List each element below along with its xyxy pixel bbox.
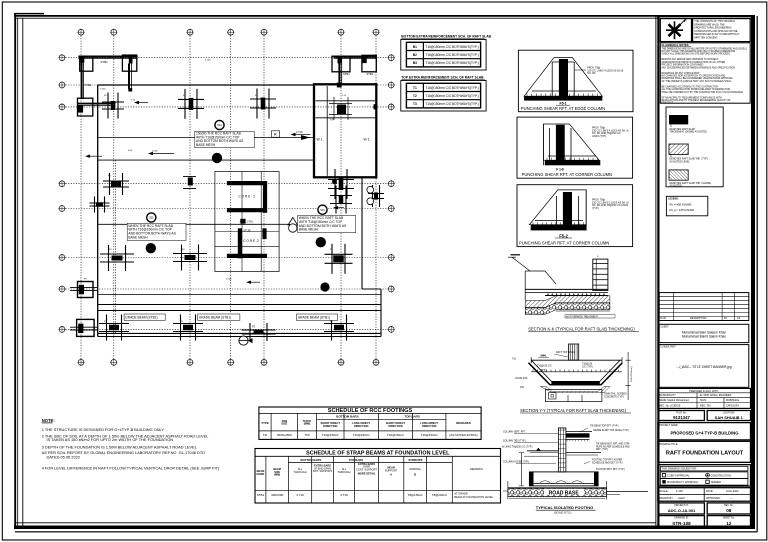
svg-text:(MM): (MM) bbox=[274, 473, 280, 477]
legend box bbox=[666, 107, 723, 188]
svg-text:DRAWINGS SHALL BE CONSIDERED U: DRAWINGS SHALL BE CONSIDERED UNLESS PRIO… bbox=[662, 77, 734, 80]
svg-text:TOP BARS: TOP BARS bbox=[404, 415, 419, 419]
svg-text:B1: B1 bbox=[413, 45, 417, 49]
svg-text:REMARKS: REMARKS bbox=[470, 467, 483, 471]
strap beam to raft bbox=[77, 104, 116, 106]
note flag G2 bbox=[147, 213, 156, 222]
svg-text:1.50m: 1.50m bbox=[100, 89, 106, 91]
svg-text:T8@150c/c: T8@150c/c bbox=[408, 493, 424, 497]
svg-text:DRAWN BY:: DRAWN BY: bbox=[660, 497, 674, 500]
svg-text:4500x4500: 4500x4500 bbox=[277, 433, 292, 437]
svg-text:STB1: STB1 bbox=[367, 72, 374, 76]
svg-text:MIN.: MIN. bbox=[540, 354, 546, 358]
svg-text:REV. No:: REV. No: bbox=[724, 505, 734, 507]
svg-text:SIGN:: SIGN: bbox=[700, 399, 707, 402]
svg-text:Pu = 450 K/N/M2: Pu = 450 K/N/M2 bbox=[670, 202, 692, 206]
svg-text:SHALL BE CARRIED OUT BY THE CO: SHALL BE CARRIED OUT BY THE CONTRACTOR F… bbox=[662, 91, 744, 94]
svg-text:12: 12 bbox=[726, 521, 732, 526]
svg-text:PUNCHING SHEAR RFT. AT CORNER: PUNCHING SHEAR RFT. AT CORNER COLUMN bbox=[522, 172, 612, 177]
svg-text:SCHEDULE AND DET. (TYP.): SCHEDULE AND DET. (TYP.) bbox=[592, 461, 623, 464]
svg-text:T16@150mm C/C BOTHWAYS(TYP.): T16@150mm C/C BOTHWAYS(TYP.) bbox=[425, 86, 478, 90]
svg-text:DIRECTION: DIRECTION bbox=[388, 424, 402, 428]
svg-text:W 1: W 1 bbox=[317, 138, 323, 142]
svg-text:NAME: Majdub Mohammad: NAME: Majdub Mohammad bbox=[659, 399, 689, 402]
svg-text:THIS DRAWING ISSUED FOR:: THIS DRAWING ISSUED FOR: bbox=[662, 468, 697, 471]
svg-text:DIRECTION: DIRECTION bbox=[354, 424, 368, 428]
svg-text:T16@150c/c: T16@150c/c bbox=[353, 433, 371, 437]
svg-text:DIRECTION: DIRECTION bbox=[323, 424, 337, 428]
footing box top-left B bbox=[122, 55, 136, 71]
svg-text:DRAWINGS OF ANY CONSULTANT: DRAWINGS OF ANY CONSULTANT bbox=[662, 72, 701, 75]
svg-text:CONSULTANT:: CONSULTANT: bbox=[660, 346, 676, 349]
svg-text:ANY DISCREPANCIES BETWEEN DRAW: ANY DISCREPANCIES BETWEEN DRAWINGS AND S… bbox=[662, 66, 736, 69]
svg-text:(MM): (MM) bbox=[304, 422, 311, 426]
svg-text:---: --- bbox=[730, 497, 733, 500]
svg-text:4) LINKS T8@150 C/C (TYP.): 4) LINKS T8@150 C/C (TYP.) bbox=[502, 447, 533, 449]
svg-text:STR-108: STR-108 bbox=[672, 521, 691, 526]
svg-text:STB1: STB1 bbox=[343, 72, 350, 76]
svg-text:REG. No: LICENSE: REG. No: LICENSE bbox=[659, 405, 681, 408]
svg-text:T16@150c/c: T16@150c/c bbox=[387, 433, 405, 437]
note box G3 bbox=[298, 216, 356, 233]
svg-text:OF MUNICIPALITY REQUIREMENT CO: OF MUNICIPALITY REQUIREMENT COMPLIANCE W… bbox=[662, 96, 723, 99]
svg-text:A: A bbox=[390, 473, 392, 477]
svg-text:GOOD SOIL: GOOD SOIL bbox=[515, 378, 529, 380]
svg-text:T16@150mm C/C BOTHWAYS(TYP.): T16@150mm C/C BOTHWAYS(TYP.) bbox=[425, 61, 478, 65]
core-1 walls bbox=[227, 181, 267, 213]
svg-text:OF THE OWNER IS CONSULTANT. AN: OF THE OWNER IS CONSULTANT. ANY SUCH CHA… bbox=[662, 80, 733, 83]
footing box top-left A bbox=[80, 57, 93, 71]
grid bubbles left bbox=[58, 54, 65, 333]
copyright text box bbox=[693, 19, 751, 42]
svg-text:T16@150mm C/C BOTHWAYS(TYP.): T16@150mm C/C BOTHWAYS(TYP.) bbox=[425, 94, 478, 98]
misc arrows bbox=[85, 155, 102, 158]
svg-text:NO. RF.: NO. RF. bbox=[587, 72, 596, 75]
svg-text:GRADE BEAM (STB1): GRADE BEAM (STB1) bbox=[199, 315, 231, 319]
bottom extra reinforcement table bbox=[401, 35, 492, 70]
left outside footing y289 bbox=[70, 279, 98, 298]
note flag G1 bbox=[215, 120, 224, 129]
core outline box bbox=[215, 172, 279, 272]
footings row y104 bbox=[102, 93, 124, 119]
svg-text:PROJECT ID:: PROJECT ID: bbox=[674, 505, 689, 507]
svg-text:RAFT TOP LEVEL: RAFT TOP LEVEL bbox=[556, 351, 576, 354]
svg-text:NO CHANGES NOR ALTERATION TO S: NO CHANGES NOR ALTERATION TO SPECIFICATI… bbox=[662, 75, 726, 78]
svg-text:DRAWING TITLE:: DRAWING TITLE: bbox=[660, 443, 679, 446]
notes block bbox=[42, 418, 220, 471]
title block frame bbox=[657, 15, 755, 529]
black dots bbox=[212, 153, 222, 163]
svg-text:Pu,g = 125 K/N/M2: Pu,g = 125 K/N/M2 bbox=[670, 208, 695, 212]
note box G1 bbox=[195, 131, 254, 147]
svg-text:B: B bbox=[414, 473, 416, 477]
consultant box bbox=[659, 345, 749, 388]
sheet number row bbox=[659, 516, 751, 527]
drawing title box bbox=[658, 441, 751, 462]
plot no row bbox=[659, 411, 751, 421]
svg-text:T16@150c/c: T16@150c/c bbox=[322, 433, 340, 437]
svg-text:REGULATIONS AND TO THE BEST EN: REGULATIONS AND TO THE BEST ENGINEERING … bbox=[662, 99, 732, 102]
top-right strap wall bbox=[334, 57, 377, 59]
grid horizontal lines bbox=[66, 58, 389, 330]
wall vertical left x82 bbox=[82, 60, 92, 99]
svg-text:GRADE SLAB? TOP LEVEL (TYP.): GRADE SLAB? TOP LEVEL (TYP.) bbox=[593, 429, 629, 432]
svg-text:BE CHARGED ACCORDING TO THE CO: BE CHARGED ACCORDING TO THE CONTRACTOR bbox=[662, 85, 719, 88]
dim line y294 bbox=[98, 294, 381, 296]
svg-text:Muhammad Bakht Salem Khan: Muhammad Bakht Salem Khan bbox=[682, 335, 726, 339]
svg-text:TOP BARS: TOP BARS bbox=[349, 458, 363, 462]
svg-text:ADMINISTRATOR PRIOR IN CONDUCT: ADMINISTRATOR PRIOR IN CONDUCTION OF ALL… bbox=[662, 61, 726, 64]
bottom band lines bbox=[98, 305, 381, 311]
svg-text:DIRECTION: DIRECTION bbox=[422, 424, 436, 428]
svg-text:DET. (TYP.): DET. (TYP.) bbox=[596, 449, 608, 451]
svg-text:PUNCHING SHEAR RFT. AT CORNER: PUNCHING SHEAR RFT. AT CORNER COLUMN bbox=[519, 241, 609, 246]
svg-text:SIZE: SIZE bbox=[281, 422, 287, 426]
svg-text:PROJECT NAME:: PROJECT NAME: bbox=[660, 424, 679, 427]
svg-text:4 T16: 4 T16 bbox=[340, 493, 348, 497]
svg-text:PUNCHING SHEAR RFT. AT EDGE CO: PUNCHING SHEAR RFT. AT EDGE COLUMN bbox=[521, 106, 605, 111]
svg-text:1:100: 1:100 bbox=[676, 489, 683, 493]
svg-text:STUB: STUB bbox=[243, 229, 250, 233]
svg-text:SHEET No:: SHEET No: bbox=[723, 518, 735, 520]
svg-text:SAH SHUAIB 1: SAH SHUAIB 1 bbox=[715, 415, 744, 420]
municipal approval rows bbox=[658, 388, 751, 408]
svg-text:TIE BEAM BOT. RFT. AND STIR-: TIE BEAM BOT. RFT. AND STIR- bbox=[596, 443, 630, 446]
svg-text:GRADE BEAM (STB1): GRADE BEAM (STB1) bbox=[125, 315, 157, 319]
footing near 341,200 bbox=[330, 186, 352, 214]
svg-text:AS NOTED: AS NOTED bbox=[670, 185, 682, 188]
shear wall W1 box bbox=[314, 83, 376, 184]
svg-text:T16@150mm C/C BOTHWAYS(TYP.): T16@150mm C/C BOTHWAYS(TYP.) bbox=[425, 102, 478, 106]
svg-text:DATE:: DATE: bbox=[706, 490, 713, 493]
svg-text:ADC-O-JA-001: ADC-O-JA-001 bbox=[668, 508, 696, 513]
footings row y330 bbox=[99, 315, 129, 341]
svg-text:REG. TIN:: REG. TIN: bbox=[700, 405, 711, 408]
svg-text:TYP: TYP bbox=[330, 119, 335, 122]
svg-text:AUG 2022: AUG 2022 bbox=[726, 489, 739, 493]
svg-text:PROJECT INFORMATION CONTAINED: PROJECT INFORMATION CONTAINED bbox=[662, 64, 704, 67]
svg-text:REMARKS: REMARKS bbox=[456, 421, 471, 425]
svg-text:F 1-8: F 1-8 bbox=[556, 167, 564, 171]
svg-text:THICKENING (DOWN) AS NOTED: THICKENING (DOWN) AS NOTED bbox=[670, 131, 708, 134]
svg-text:CLIENT:: CLIENT: bbox=[660, 326, 669, 328]
svg-text:C O R E - 1: C O R E - 1 bbox=[238, 195, 255, 199]
svg-text:S01: S01 bbox=[217, 123, 222, 127]
svg-text:THE DIMENSIONS ARE IN MILLIMET: THE DIMENSIONS ARE IN MILLIMETER OR NOTE… bbox=[662, 47, 748, 50]
issued-for box with checkboxes bbox=[658, 465, 751, 487]
svg-text:1 THE STRUCTURE IS DESIGNED F: 1 THE STRUCTURE IS DESIGNED FOR G+4TYP-B… bbox=[42, 427, 165, 432]
svg-text:2-T16: 2-T16 bbox=[240, 222, 246, 224]
svg-text:-.-( )ADC-..TITLE SHEET BANNER: -.-( )ADC-..TITLE SHEET BANNER.jpg bbox=[676, 365, 731, 369]
svg-text:ROAD BASE: ROAD BASE bbox=[549, 490, 580, 496]
top extra reinforcement table bbox=[401, 76, 486, 111]
svg-text:T16@150 C/C: T16@150 C/C bbox=[537, 366, 552, 368]
diamond flag bottom bbox=[239, 336, 253, 345]
svg-text:(TYP.): (TYP.) bbox=[592, 207, 599, 210]
core-2 walls bbox=[227, 219, 267, 258]
section Y-Y drawing bbox=[512, 344, 633, 413]
grid bubbles top bbox=[77, 29, 379, 36]
svg-text:T1: T1 bbox=[413, 86, 417, 90]
svg-text:MORE DETAIL: MORE DETAIL bbox=[358, 472, 376, 476]
svg-text:T8@200c/c: T8@200c/c bbox=[432, 493, 448, 497]
svg-text:ALL THE CONSTRUCTION WORKS REL: ALL THE CONSTRUCTION WORKS RELATED TO RE… bbox=[662, 88, 731, 91]
svg-text:CONSTRUCTION: CONSTRUCTION bbox=[711, 475, 731, 478]
svg-text:BOTTOM BARS: BOTTOM BARS bbox=[336, 415, 358, 419]
svg-text:SCALE:: SCALE: bbox=[660, 490, 669, 493]
section line K-K y137.5 bbox=[98, 131, 313, 140]
punching shear detail box 3 (corner column mirrored) bbox=[517, 185, 633, 247]
svg-text:T16@150c/c: T16@150c/c bbox=[421, 433, 439, 437]
svg-text:PREPARED IN ASS. WITH:: PREPARED IN ASS. WITH: bbox=[689, 390, 719, 393]
svg-text:T16@150mm C/C BOTHWAYS(TYP.): T16@150mm C/C BOTHWAYS(TYP.) bbox=[425, 53, 478, 57]
svg-text:IS TAKEN AS 150 kN/m2 FOR UPTO: IS TAKEN AS 150 kN/m2 FOR UPTO 2m WIDTH … bbox=[47, 437, 174, 442]
svg-text:STB1: STB1 bbox=[257, 493, 265, 497]
svg-text:THROUGH: THROUGH bbox=[337, 470, 350, 474]
svg-text:BASE MESH: BASE MESH bbox=[128, 236, 148, 240]
raft interior line y160 bbox=[98, 159, 314, 161]
svg-text:TOP EXTRA REINFORCEMENT SCH. O: TOP EXTRA REINFORCEMENT SCH. OF RAFT SLA… bbox=[401, 76, 484, 80]
svg-text:TIE BEAM TOP RFT. (TYP.): TIE BEAM TOP RFT. (TYP.) bbox=[590, 425, 619, 428]
footing box left C bbox=[78, 98, 93, 116]
svg-text:F5-2: F5-2 bbox=[559, 233, 568, 238]
punching shear detail box 1 (edge column) bbox=[518, 50, 633, 111]
footings row y184 bbox=[103, 173, 129, 195]
svg-text:C/C (TYP.): C/C (TYP.) bbox=[582, 366, 593, 368]
Pu legend box bbox=[666, 196, 707, 216]
svg-text:C O R E -2: C O R E -2 bbox=[243, 239, 259, 243]
svg-text:4 FOR LEVEL DIFFERENCE IN RAF: 4 FOR LEVEL DIFFERENCE IN RAFT FOLLOW TY… bbox=[42, 466, 220, 471]
svg-text:(SCALE N.T.S.): (SCALE N.T.S.) bbox=[554, 512, 572, 515]
revision table bbox=[659, 293, 749, 321]
schedule of strap beams table bbox=[255, 449, 501, 504]
footing row y208 left bbox=[90, 197, 110, 213]
section K-K drawing bbox=[508, 255, 639, 332]
svg-text:REPORT ANY ERROR AND OMISSION: REPORT ANY ERROR AND OMISSION TO PROJECT bbox=[662, 58, 720, 61]
arrow annotation left of W1 bbox=[291, 131, 311, 136]
svg-text:T16@150mm C/C BOTHWAYS(TYP.): T16@150mm C/C BOTHWAYS(TYP.) bbox=[425, 45, 478, 49]
svg-text:LEGEND:: LEGEND: bbox=[668, 199, 679, 201]
punching shear detail box 2 (corner column) bbox=[517, 117, 633, 178]
footing box top-right A bbox=[332, 56, 350, 76]
svg-text:CK: CK bbox=[737, 317, 741, 320]
svg-text:75MM THK. SCREED: 75MM THK. SCREED bbox=[604, 394, 627, 396]
tiny dimension labels bbox=[100, 60, 347, 281]
svg-text:DESCRIPTION: DESCRIPTION bbox=[690, 317, 707, 320]
svg-text:LINKS (TYP.): LINKS (TYP.) bbox=[592, 135, 606, 138]
svg-text:AS NOTED LEVEL: AS NOTED LEVEL bbox=[670, 160, 691, 163]
svg-text:TYPICAL ISOLATED FOOTING: TYPICAL ISOLATED FOOTING bbox=[536, 505, 593, 510]
wall vertical from B down bbox=[128, 64, 132, 92]
svg-text:DRAWING ID:: DRAWING ID: bbox=[674, 517, 689, 520]
svg-text:3.70m: 3.70m bbox=[205, 60, 211, 62]
svg-text:WRITTEN CONSENT.: WRITTEN CONSENT. bbox=[694, 37, 718, 40]
svg-text:BASE MESH: BASE MESH bbox=[196, 143, 216, 147]
svg-text:CHECK ALL DIMENSIONS ON SITE B: CHECK ALL DIMENSIONS ON SITE BEFORE WORK… bbox=[662, 53, 731, 56]
svg-text:PRACTICE: PRACTICE bbox=[662, 102, 674, 105]
grid vertical lines bbox=[81, 36, 376, 360]
svg-text:BEAM AT FOUNDATION LEVEL: BEAM AT FOUNDATION LEVEL bbox=[454, 495, 493, 499]
logo box with compass star bbox=[660, 19, 691, 42]
svg-text:750: 750 bbox=[304, 433, 309, 437]
wall down to W1 bbox=[339, 59, 341, 84]
svg-text:STB1: STB1 bbox=[101, 60, 109, 64]
svg-text:BY: BY bbox=[724, 317, 728, 320]
svg-text:T16@150: T16@150 bbox=[582, 364, 593, 366]
svg-text:SCHEDULE OF RCC FOOTINGS: SCHEDULE OF RCC FOOTINGS bbox=[328, 408, 413, 414]
raft slab outline bbox=[98, 85, 381, 337]
raft interior vertical x115.5 bbox=[115, 160, 117, 333]
svg-text:CONT. SUPPORT: CONT. SUPPORT bbox=[356, 467, 377, 471]
footing labels F5 bbox=[104, 95, 333, 323]
svg-text:SCHEDULE OF STRAP BEAMS AT FOU: SCHEDULE OF STRAP BEAMS AT FOUNDATION LE… bbox=[306, 451, 450, 457]
svg-text:MUNICIPALITY APPROVAL: MUNICIPALITY APPROVAL bbox=[667, 481, 699, 484]
svg-text:R.NO: R.NO bbox=[660, 317, 666, 320]
footings row y258 bbox=[100, 245, 134, 271]
svg-text:T2: T2 bbox=[413, 94, 417, 98]
svg-text:NOMINAL: NOMINAL bbox=[409, 467, 421, 471]
svg-text:SECTION K-K (TYPICAL FOR RAFT: SECTION K-K (TYPICAL FOR RAFT SLAB THICK… bbox=[528, 326, 635, 331]
drawing number row bbox=[659, 503, 751, 514]
svg-text:DATED 05 05 2022: DATED 05 05 2022 bbox=[47, 454, 80, 459]
svg-text:FOOTING BOT. RFT. (TYP.): FOOTING BOT. RFT. (TYP.) bbox=[596, 469, 625, 471]
svg-text:MARK: MARK bbox=[257, 472, 265, 476]
svg-text:THROUGH: THROUGH bbox=[293, 470, 306, 474]
footing right edge y184 bbox=[368, 185, 384, 207]
svg-text:W 1: W 1 bbox=[364, 138, 370, 142]
grid bubbles bottom bbox=[77, 359, 379, 366]
svg-text:ALEX: ALEX bbox=[678, 496, 685, 500]
note flag G3 bbox=[318, 205, 327, 214]
svg-text:2-T16: 2-T16 bbox=[296, 131, 303, 134]
svg-text:NOTE:: NOTE: bbox=[42, 418, 55, 423]
client box bbox=[659, 324, 749, 342]
svg-text:B2: B2 bbox=[413, 53, 417, 57]
svg-text:(TYP.): (TYP.) bbox=[540, 370, 547, 372]
svg-text:APPROVED:: APPROVED: bbox=[706, 497, 721, 500]
grade beam label boxes bbox=[124, 314, 165, 320]
svg-text:BOT. SUPPORT: BOT. SUPPORT bbox=[313, 469, 332, 473]
grid bubbles right bbox=[388, 54, 395, 333]
left outside footing y329 bbox=[70, 319, 98, 336]
svg-text:MUNICIPALITY: MUNICIPALITY bbox=[659, 394, 676, 397]
svg-text:ANTI-TERMITE TREATMENT: ANTI-TERMITE TREATMENT bbox=[566, 316, 598, 319]
schedule of rcc footings table bbox=[259, 407, 481, 439]
svg-text:(AS NOTED EXTRA): (AS NOTED EXTRA) bbox=[449, 433, 477, 437]
footing box top-right B bbox=[362, 55, 376, 76]
svg-text:DO NOT SCALE THIS DRAWING AND: DO NOT SCALE THIS DRAWING AND ONLY FIGUR… bbox=[662, 50, 736, 53]
svg-text:STB1: STB1 bbox=[85, 83, 92, 87]
svg-text:RUPS AS PER SCHEDULE AND: RUPS AS PER SCHEDULE AND bbox=[596, 445, 630, 448]
svg-text:TYPE: TYPE bbox=[261, 421, 269, 425]
svg-text:1.50m: 1.50m bbox=[226, 279, 232, 281]
svg-text:CONCRETE (TYP.): CONCRETE (TYP.) bbox=[604, 396, 624, 398]
svg-text:BOTTOM EXTRA REINFORCEMENT SCH: BOTTOM EXTRA REINFORCEMENT SCH. OF RAFT … bbox=[401, 35, 491, 39]
long line y224.3 with level flag bbox=[98, 218, 298, 233]
svg-text:4 T16: 4 T16 bbox=[296, 493, 304, 497]
project name box bbox=[658, 423, 751, 440]
disclaimer paragraph bbox=[660, 43, 750, 105]
svg-text:BOTTOM BARS: BOTTOM BARS bbox=[301, 458, 322, 462]
svg-text:BASE MESH: BASE MESH bbox=[299, 228, 319, 232]
note box G2 bbox=[127, 223, 186, 240]
flag circles right of W1 bbox=[367, 186, 374, 204]
svg-text:Er. MOH. ENGG. ENGINEER: Er. MOH. ENGG. ENGINEER bbox=[700, 394, 732, 397]
svg-text:08: 08 bbox=[726, 508, 732, 513]
svg-text:2-T16: 2-T16 bbox=[247, 221, 254, 224]
svg-text:T3: T3 bbox=[413, 102, 417, 106]
svg-text:S01: S01 bbox=[320, 208, 325, 212]
svg-text:9131347: 9131347 bbox=[673, 415, 690, 420]
scale date rows bbox=[658, 488, 751, 502]
svg-text:MOB/Mobile: MOB/Mobile bbox=[726, 399, 740, 402]
svg-text:300X600: 300X600 bbox=[271, 493, 283, 497]
svg-text:RAFT FOUNDATION LAYOUT: RAFT FOUNDATION LAYOUT bbox=[666, 451, 744, 457]
svg-text:GRADE BEAM (STB1): GRADE BEAM (STB1) bbox=[298, 315, 330, 319]
svg-text:FOOTING TOP RFT. AS PER: FOOTING TOP RFT. AS PER bbox=[592, 459, 622, 462]
svg-text:B3: B3 bbox=[413, 61, 417, 65]
svg-text:SECTION Y-Y (TYPICAL FOR RAFT: SECTION Y-Y (TYPICAL FOR RAFT SLAB THICK… bbox=[520, 408, 626, 413]
svg-text:TENDER: TENDER bbox=[711, 481, 721, 484]
svg-text:CATEGORY: CATEGORY bbox=[726, 405, 740, 408]
svg-text:PROPOSED G+4 TYP-B BUILDING: PROPOSED G+4 TYP-B BUILDING bbox=[670, 431, 738, 436]
svg-text:1500 (1500mm): 1500 (1500mm) bbox=[631, 366, 633, 382]
top-left strap beam wall bbox=[78, 57, 137, 64]
svg-text:CLIENT APPROVAL: CLIENT APPROVAL bbox=[667, 475, 690, 478]
typical isolated footing detail bbox=[502, 425, 648, 515]
svg-text:STIRRUPS: STIRRUPS bbox=[408, 458, 422, 462]
svg-text:S01: S01 bbox=[149, 216, 154, 220]
